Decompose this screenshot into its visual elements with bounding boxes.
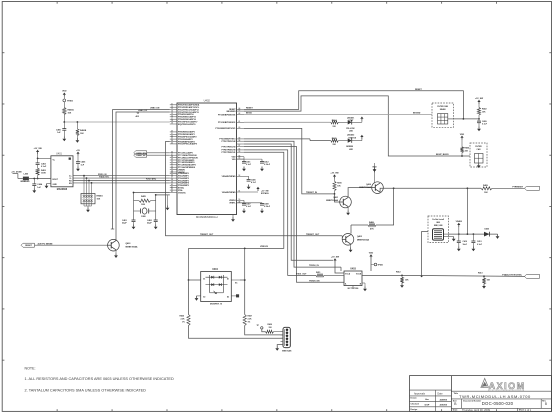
svg-text:0.1uF: 0.1uF [246,164,252,166]
svg-text:VDD: VDD [369,253,374,255]
svg-text:TRESET_OUT: TRESET_OUT [200,234,214,236]
svg-text:Date: Date [437,392,443,395]
svg-text:VCCA: VCCA [345,273,351,276]
svg-text:TRXD0_EN: TRXD0_EN [309,280,320,282]
svg-text:4/30/09: 4/30/09 [440,404,448,407]
svg-text:+3V_SW: +3V_SW [331,257,339,259]
svg-text:TP401: TP401 [378,263,384,266]
svg-text:15: 15 [171,113,173,115]
svg-text:RESET: RESET [415,89,422,91]
svg-text:PTAD/JOYSTICKSEL: PTAD/JOYSTICKSEL [502,273,523,276]
svg-text:23: 23 [171,138,173,140]
svg-text:MMBT3904A: MMBT3904A [359,186,371,189]
svg-text:Approvals: Approvals [414,392,426,395]
svg-text:SW400: SW400 [440,108,446,111]
svg-text:MAX3808: MAX3808 [57,188,68,191]
svg-text:LED: LED [349,131,354,133]
svg-text:18: 18 [171,120,173,122]
svg-text:47K: 47K [370,228,374,231]
svg-text:R413: R413 [478,271,483,274]
svg-text:50: 50 [239,199,241,201]
svg-text:10M: 10M [141,204,145,206]
svg-text:Do Not Install: Do Not Install [432,218,444,221]
svg-text:RXD0 (RX): RXD0 (RX) [146,179,156,181]
svg-text:R402: R402 [482,108,487,111]
svg-text:12: 12 [171,106,173,108]
svg-text:PTG2/KBI2P6/SPSCK1: PTG2/KBI2P6/SPSCK1 [215,128,235,130]
svg-text:32: 32 [171,166,173,168]
svg-text:CAN: CAN [477,148,482,151]
svg-text:59: 59 [239,138,241,140]
svg-text:Title: Title [454,392,459,395]
svg-text:STATUS: STATUS [348,136,356,139]
svg-text:G2: G2 [203,296,205,298]
svg-text:MMBT3904A: MMBT3904A [326,199,338,202]
svg-text:R412: R412 [396,270,401,273]
svg-text:MINI SAS: MINI SAS [282,350,292,353]
svg-text:R406: R406 [465,147,470,150]
svg-text:36: 36 [171,174,173,176]
svg-text:Date:: Date: [453,409,458,412]
svg-text:klw: klw [425,399,429,401]
svg-text:BYPASS: BYPASS [261,192,269,195]
svg-text:Drawn: Drawn [411,398,418,400]
svg-text:30: 30 [171,161,173,163]
svg-text:BKGD/MS: BKGD/MS [227,111,237,113]
svg-text:2.2K: 2.2K [248,318,253,320]
svg-text:22: 22 [171,135,173,137]
svg-text:4.7uF: 4.7uF [251,181,257,184]
svg-text:D1: D1 [227,279,229,281]
svg-text:38: 38 [171,179,173,181]
svg-text:2. TANTALUM CAPACITORS SMA UN: 2. TANTALUM CAPACITORS SMA UNLESS OTHERW… [25,388,147,392]
svg-text:Document Number: Document Number [463,400,481,403]
svg-text:U401: U401 [56,153,62,156]
svg-text:11: 11 [171,103,173,105]
svg-text:TRESET_IN: TRESET_IN [306,192,318,194]
svg-text:55: 55 [239,151,241,153]
svg-text:C410: C410 [463,240,468,243]
svg-text:VSSAD/PMPAD: VSSAD/PMPAD [222,191,236,194]
svg-text:1 of 1: 1 of 1 [525,409,532,412]
svg-text:GREEN: GREEN [346,146,354,148]
svg-text:U402: U402 [204,99,211,103]
svg-text:PTF5/TPM2CH1: PTF5/TPM2CH1 [222,152,236,154]
svg-text:20: 20 [171,131,173,133]
svg-text:RESET: RESET [25,245,32,247]
svg-text:63: 63 [239,110,241,112]
svg-text:U403: U403 [350,268,356,271]
svg-text:D2: D2 [227,296,229,298]
svg-text:22pF: 22pF [122,223,127,225]
svg-text:62: 62 [239,113,241,115]
svg-text:R426: R426 [180,315,185,318]
svg-text:37: 37 [171,177,173,179]
svg-text:R400B: R400B [80,129,87,132]
svg-text:61: 61 [239,121,241,123]
svg-text:0.1uF: 0.1uF [246,206,252,208]
svg-text:57: 57 [239,145,241,147]
svg-text:0.1uF: 0.1uF [41,166,47,168]
svg-text:Thursday, April 30, 2009: Thursday, April 30, 2009 [462,408,490,412]
svg-text:FILTER CAN: FILTER CAN [437,105,448,108]
svg-text:0.33uF: 0.33uF [264,206,271,208]
svg-text:VDD: VDD [62,91,67,93]
svg-text:DOC-0500-020: DOC-0500-020 [482,401,514,406]
svg-text:FILTER: FILTER [475,146,482,148]
svg-text:330: 330 [269,327,272,329]
svg-text:LED402: LED402 [347,134,355,137]
svg-text:58: 58 [239,140,241,142]
svg-text:0.1uF: 0.1uF [482,124,488,126]
svg-text:TP400: TP400 [67,99,74,102]
svg-text:2.2K: 2.2K [181,318,186,320]
svg-text:TRESET_OUT: TRESET_OUT [306,234,320,236]
svg-text:28: 28 [171,156,173,158]
svg-text:MMBT3904A: MMBT3904A [357,239,369,242]
svg-text:VR400: VR400 [456,220,463,223]
svg-text:39: 39 [171,182,173,184]
svg-text:VCCB: VCCB [356,274,362,276]
svg-text:TXD0_OUT: TXD0_OUT [296,274,307,276]
svg-text:31: 31 [171,163,173,165]
svg-text:33: 33 [171,168,173,170]
svg-text:+3V_SW: +3V_SW [475,98,483,100]
svg-text:10K: 10K [68,112,72,114]
svg-text:1%: 1% [248,321,251,323]
svg-text:60: 60 [239,127,241,129]
svg-text:VREG3V: VREG3V [260,246,269,248]
svg-text:Sheet: Sheet [519,409,525,412]
svg-text:Checked: Checked [411,404,420,406]
svg-text:DGP: DGP [425,404,430,406]
svg-text:PTRRESET: PTRRESET [512,186,523,188]
svg-text:RN401: RN401 [97,195,104,198]
svg-text:25: 25 [171,143,173,145]
svg-text:USB0_DN: USB0_DN [150,108,160,110]
svg-text:27: 27 [171,154,173,156]
svg-text:BOUT: BOUT [53,179,59,181]
svg-text:21: 21 [171,133,173,135]
svg-text:STAT: STAT [348,119,354,122]
svg-text:WBBEAD: WBBEAD [20,180,30,183]
svg-text:AUX PG SENSE: AUX PG SENSE [38,242,54,245]
svg-text:E X C E L L E N C E I N E: E X C E L L E N C E I N E M B E D D E D … [488,390,524,392]
svg-text:GND: GND [53,184,58,186]
svg-text:PTG1/KBIP1/MISO1: PTG1/KBIP1/MISO1 [218,122,235,124]
svg-text:Design: Design [411,409,418,411]
svg-text:52: 52 [239,175,241,177]
svg-text:0.1uF: 0.1uF [477,244,483,246]
svg-text:LED401: LED401 [347,116,355,119]
svg-text:+3V_SW: +3V_SW [330,173,338,175]
svg-text:VDD: VDD [372,167,377,169]
svg-text:22pF: 22pF [147,223,152,225]
svg-text:LED: LED [349,149,354,151]
svg-text:B: B [545,402,547,406]
svg-text:VSSOSC: VSSOSC [178,192,187,194]
svg-text:NC7SZ126: NC7SZ126 [348,288,360,290]
svg-text:USB0_DP: USB0_DP [138,110,148,112]
svg-text:19: 19 [171,123,173,125]
svg-text:NOTE:: NOTE: [25,367,36,371]
svg-text:USB0_DP: USB0_DP [136,155,146,157]
svg-text:TXD0 (TX): TXD0 (TX) [99,176,109,178]
svg-text:PTG0/KBIP0/MOSI1: PTG0/KBIP0/MOSI1 [218,114,235,116]
svg-text:R410: R410 [337,182,342,185]
svg-text:R400A: R400A [68,109,75,112]
svg-text:BKGD: BKGD [246,112,252,114]
svg-text:IRQ/TPMCLK/RSTO: IRQ/TPMCLK/RSTO [178,124,196,126]
svg-text:1. ALL RESISTORS AND CAPACITO: 1. ALL RESISTORS AND CAPACITORS ARE 0603… [25,377,174,381]
svg-text:MINI_USB: MINI_USB [434,225,443,227]
svg-text:PTF0/TPM1CH2: PTF0/TPM1CH2 [222,141,236,143]
svg-text:10K: 10K [80,133,84,135]
svg-text:AXIOM: AXIOM [489,381,526,391]
svg-text:0.33uF: 0.33uF [264,164,271,166]
svg-text:35: 35 [171,172,173,174]
svg-text:R427: R427 [248,315,253,318]
svg-text:29: 29 [171,159,173,161]
svg-text:51: 51 [239,191,241,193]
svg-text:BKGND: BKGND [413,113,421,115]
svg-text:R411: R411 [316,271,320,274]
svg-text:MC9S08JM60CLH: MC9S08JM60CLH [196,215,218,219]
svg-text:D400: D400 [485,227,490,230]
svg-text:56: 56 [239,149,241,151]
svg-text:R430: R430 [268,323,273,326]
svg-text:+5V: +5V [76,150,80,152]
svg-text:13: 13 [171,108,173,110]
svg-text:17: 17 [171,118,173,120]
svg-text:C409: C409 [482,120,487,123]
svg-text:YELLOW: YELLOW [346,128,355,130]
svg-text:10K: 10K [484,192,488,194]
svg-text:TWR-MCIMODUL-LH ASM-0700: TWR-MCIMODUL-LH ASM-0700 [459,394,531,399]
svg-text:4/28/09: 4/28/09 [440,398,448,401]
svg-text:G1: G1 [203,279,205,281]
svg-text:16: 16 [171,115,173,117]
svg-text:VDDAD/PMPAD: VDDAD/PMPAD [222,175,237,178]
svg-text:PTD0/TPMCLK/ADP8: PTD0/TPMCLK/ADP8 [178,143,197,146]
svg-text:1%: 1% [182,321,185,323]
svg-text:C413: C413 [477,240,482,243]
svg-text:RESET: RESET [246,107,253,109]
svg-text:MOSFET_N: MOSFET_N [210,304,222,306]
svg-text:+3V_SW: +3V_SW [33,148,41,150]
svg-text:26: 26 [171,151,173,153]
svg-text:VDD: VDD [460,134,465,136]
svg-text:J400: J400 [436,221,440,224]
svg-text:BKUP_BKGD: BKUP_BKGD [436,154,449,156]
svg-text:VREFL: VREFL [229,203,236,205]
svg-text:10K: 10K [97,199,101,201]
svg-text:U404: U404 [212,268,218,271]
svg-text:TRXD0_IN: TRXD0_IN [309,265,319,267]
svg-text:100K: 100K [41,173,46,175]
svg-text:53: 53 [239,158,241,160]
svg-text:PTF1/TPM1CH3: PTF1/TPM1CH3 [222,146,236,148]
svg-text:MMBT3904A: MMBT3904A [126,245,138,248]
